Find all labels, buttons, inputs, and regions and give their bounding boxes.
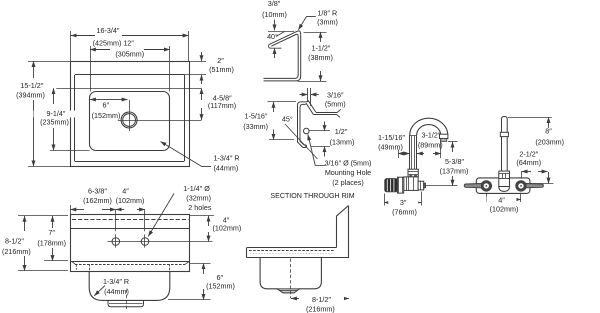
bracket hook outer line (298, 101, 316, 148)
bracket ledge double line (313, 113, 337, 115)
svg-text:1-5/16″: 1-5/16″ (245, 111, 268, 120)
dim 3 body length (384, 192, 421, 217)
faucet side hex nut (397, 177, 403, 193)
faucet side coupling nut (408, 169, 418, 177)
svg-text:(203mm): (203mm) (535, 137, 564, 146)
faucet front spout tube (502, 117, 508, 172)
svg-text:(216mm): (216mm) (2, 247, 31, 256)
front view lower solid line (70, 261, 189, 263)
front view drain centerline (126, 289, 128, 310)
dim 6 bowl depth (168, 263, 235, 300)
dim 16-3/4 top width (71, 26, 189, 61)
svg-text:(137mm): (137mm) (440, 167, 469, 176)
svg-text:(44mm): (44mm) (104, 287, 129, 296)
dim 4 top edge to holes (189, 215, 241, 241)
svg-text:8″: 8″ (545, 127, 552, 136)
svg-text:3-1/2″: 3-1/2″ (422, 131, 441, 140)
leader 1-3/4 R front bowl corner (94, 277, 129, 296)
faucet side 5-3/8 ext line (425, 185, 458, 187)
svg-text:3″: 3″ (400, 198, 407, 207)
front view drain (108, 300, 144, 306)
svg-text:(216mm): (216mm) (306, 305, 335, 313)
svg-text:2″: 2″ (217, 56, 224, 65)
svg-text:(2 places): (2 places) (332, 178, 364, 187)
section rim faint line (250, 253, 334, 255)
front view apron rectangle (71, 215, 190, 272)
dim 1-15/16 wall to riser (378, 133, 410, 158)
svg-text:45°: 45° (282, 114, 293, 123)
svg-text:6-3/8″: 6-3/8″ (88, 186, 107, 195)
bracket detail backsplash sheet (308, 88, 311, 106)
svg-text:3/8″: 3/8″ (268, 0, 281, 8)
bracket 45 deg label and leader (282, 114, 318, 159)
section backsplash (336, 206, 348, 259)
leader 1/8 R bend radius (298, 8, 338, 30)
svg-text:(76mm): (76mm) (392, 207, 417, 216)
leader mounting hole (308, 134, 372, 186)
svg-text:(32mm): (32mm) (186, 194, 211, 203)
svg-text:7″: 7″ (48, 228, 55, 237)
svg-text:(13mm): (13mm) (330, 138, 355, 147)
faucet side bonnet (418, 181, 425, 190)
svg-text:(5mm): (5mm) (325, 100, 346, 109)
top view outer rim rectangle (71, 62, 190, 167)
dim 6-3/8 left edge to hole (70, 186, 115, 214)
svg-text:(102mm): (102mm) (490, 204, 519, 213)
top view bowl reference line (50, 88, 202, 90)
leader 1-3/4 R bowl corner radius (161, 142, 240, 173)
faucet side riser tube (410, 135, 417, 169)
svg-text:(89mm): (89mm) (418, 141, 443, 150)
svg-text:(64mm): (64mm) (516, 158, 541, 167)
faucet front left handle hub (481, 181, 491, 191)
front view hidden bowl top line (72, 262, 189, 270)
rim detail bottom leg outer line (264, 35, 301, 81)
section title text (270, 192, 354, 200)
svg-text:(102mm): (102mm) (116, 196, 145, 205)
svg-text:(10mm): (10mm) (262, 10, 287, 19)
faucet side gooseneck arc (410, 118, 448, 135)
section rim bottom line (247, 257, 349, 259)
front view hidden bowl sides (90, 264, 170, 271)
section rim left end cap (246, 248, 248, 258)
bracket mounting hole circle (304, 128, 310, 134)
svg-text:8-1/2″: 8-1/2″ (5, 236, 24, 245)
svg-text:1-1/2″: 1-1/2″ (312, 44, 331, 53)
svg-text:(51mm): (51mm) (209, 65, 234, 74)
top view bowl rounded rectangle (90, 92, 170, 151)
faucet front coupling ring (500, 132, 508, 136)
faucet front mounting nut (499, 171, 510, 186)
top view inner rim line (75, 75, 185, 162)
bracket 1-5/16 dim (243, 102, 296, 140)
svg-text:1-1/4″ Ø: 1-1/4″ Ø (183, 184, 210, 193)
svg-text:(235mm): (235mm) (40, 117, 69, 126)
section rim top line (247, 247, 337, 249)
svg-text:1/2″: 1/2″ (335, 127, 348, 136)
front view hole ext lines (116, 209, 145, 247)
dim 7 to hidden line (37, 216, 68, 261)
svg-text:(425mm): (425mm) (93, 38, 122, 47)
svg-text:2 holes: 2 holes (188, 203, 212, 212)
dim 8-1/2 apron height (2, 216, 68, 271)
dim 4 hole spacing (116, 186, 145, 209)
section rim hidden dashed line (249, 250, 334, 252)
svg-text:(44mm): (44mm) (214, 164, 239, 173)
svg-text:(162mm): (162mm) (83, 196, 112, 205)
svg-text:(3mm): (3mm) (317, 18, 338, 27)
dim 5-3/8 spout height (440, 142, 469, 186)
rim detail 1-1/2 dim (298, 32, 333, 82)
svg-text:(178mm): (178mm) (37, 238, 66, 247)
svg-text:SECTION THROUGH RIM: SECTION THROUGH RIM (270, 192, 354, 200)
bracket hook inner line (300, 104, 313, 145)
dim 3-1/2 riser to spout (417, 131, 443, 158)
faucet side body (404, 177, 418, 191)
svg-text:(33mm): (33mm) (243, 122, 268, 131)
rim detail 3/8 dim (262, 0, 294, 58)
svg-text:(152mm): (152mm) (206, 281, 235, 290)
faucet front right handle hub (516, 181, 526, 191)
leader 1-1/4 dia holes (148, 184, 212, 236)
faucet front body (476, 178, 530, 194)
svg-text:(38mm): (38mm) (308, 53, 333, 62)
svg-text:16-3/4″: 16-3/4″ (97, 26, 120, 35)
bracket bottom foot (303, 145, 307, 148)
faucet front handle ref line (530, 183, 554, 185)
dim 4-5/8 ledge to drain (202, 88, 237, 120)
dim 12 bowl width (90, 38, 170, 91)
svg-text:1-15/16″: 1-15/16″ (378, 133, 405, 142)
svg-text:(305mm): (305mm) (115, 50, 144, 59)
dim 8 spout height (508, 117, 564, 183)
svg-text:4″: 4″ (122, 186, 129, 195)
faucet side knurled nut (385, 179, 398, 192)
svg-text:1-3/4″ R: 1-3/4″ R (214, 154, 240, 163)
svg-text:Mounting Hole: Mounting Hole (325, 168, 371, 177)
faucet front right handle bar (526, 184, 543, 188)
bracket break mark (337, 109, 341, 117)
bracket 3/16 thickness dim (300, 91, 346, 109)
section drain bump (277, 289, 299, 293)
svg-text:3/16″ Ø (5mm): 3/16″ Ø (5mm) (325, 159, 372, 168)
svg-text:(49mm): (49mm) (378, 143, 403, 152)
front view faucet holes (108, 238, 213, 246)
svg-text:(394mm): (394mm) (16, 90, 45, 99)
svg-text:12″: 12″ (123, 38, 134, 47)
dim 15-1/2 overall height (8, 61, 71, 166)
dim 8-1/2 section (291, 295, 349, 313)
rim detail bottom leg inner line (264, 36, 299, 78)
dim 6 bowl left to drain (90, 100, 128, 121)
svg-text:6″: 6″ (103, 101, 110, 110)
svg-text:(152mm): (152mm) (92, 111, 121, 120)
svg-text:(117mm): (117mm) (208, 101, 236, 110)
bracket 1/2 dim (310, 122, 355, 157)
svg-text:1-3/4″ R: 1-3/4″ R (103, 277, 129, 286)
front view bowl below apron (89, 271, 170, 300)
svg-text:(102mm): (102mm) (213, 224, 242, 233)
svg-text:15-1/2″: 15-1/2″ (20, 81, 43, 90)
dim 2 ledge (184, 52, 234, 84)
svg-text:8-1/2″: 8-1/2″ (312, 295, 331, 304)
svg-text:4″: 4″ (498, 195, 505, 204)
section bowl outline (260, 258, 321, 293)
rim detail 40 deg label (267, 32, 284, 41)
rim detail peak and 40 deg flange (269, 31, 301, 48)
dim 2-1/2 hole to handle end (516, 149, 547, 178)
faucet side spout tip (440, 134, 448, 141)
svg-text:1/8″ R: 1/8″ R (317, 8, 337, 17)
top view drain crosshair (118, 100, 202, 131)
svg-text:5-3/8″: 5-3/8″ (445, 157, 464, 166)
front view hidden rim fold line (72, 219, 189, 221)
faucet front left handle bar (464, 184, 481, 188)
dim 4 hole spacing front (486, 193, 521, 214)
top view drain inner circle (123, 114, 136, 127)
svg-text:3/16″: 3/16″ (327, 91, 344, 100)
top view drain outer circle (121, 112, 137, 128)
section drain centerline (290, 259, 292, 299)
faucet front spout outlet (499, 187, 510, 192)
dim 9-1/4 bowl height (34, 88, 90, 150)
front view ledge front line (70, 228, 189, 230)
